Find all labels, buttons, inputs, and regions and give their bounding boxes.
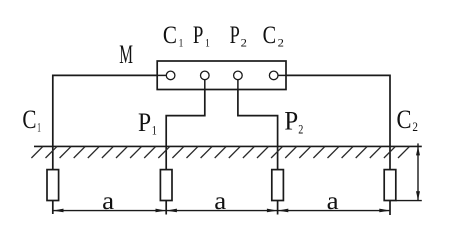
dimension arrows at electrode 1 (53, 209, 64, 213)
terminal C1 (166, 71, 175, 80)
depth dimension arrow down (416, 191, 420, 200)
wire C1: box left terminal to left electrode (53, 75, 171, 170)
electrode 3 stub below (277, 170, 279, 215)
svg-text:P: P (138, 107, 151, 137)
ground surface line (34, 145, 422, 147)
label C2 (top) (263, 22, 284, 50)
svg-text:1: 1 (37, 121, 41, 135)
label P2 (top) (230, 22, 247, 50)
label P2 (ground) (284, 106, 303, 137)
svg-text:P: P (230, 22, 240, 49)
wire stubs inside box to terminals (157, 75, 286, 89)
terminal C2 (269, 71, 278, 80)
electrode 2 (160, 170, 172, 201)
label P1 (top) (193, 22, 210, 50)
svg-text:a: a (102, 188, 114, 215)
electrode 2 stub below (165, 170, 167, 215)
svg-text:2: 2 (278, 35, 284, 49)
label C1 (ground) (22, 104, 40, 134)
label C2 (ground) (397, 104, 419, 134)
svg-text:C: C (263, 22, 277, 49)
svg-text:P: P (193, 22, 204, 49)
label P1 (ground) (138, 107, 157, 137)
electrode 1 (47, 170, 59, 201)
svg-text:C: C (163, 22, 177, 49)
svg-text:a: a (214, 188, 226, 215)
svg-text:C: C (22, 104, 36, 134)
dimension arrows at electrode 4 (379, 209, 390, 213)
wire P2: terminal P2 down and jog right to electrode 3 (238, 75, 278, 170)
dimension arrows at electrode 2 (156, 209, 167, 213)
svg-text:1: 1 (205, 35, 210, 49)
ground hatching (31, 147, 409, 158)
svg-text:a: a (327, 188, 339, 215)
dimension line a (1-2) (53, 210, 166, 212)
dimension arrows at electrode 3 (267, 209, 278, 213)
wire C2: box right terminal to right electrode (274, 75, 390, 170)
depth dimension line (417, 143, 419, 200)
svg-text:2: 2 (241, 35, 247, 49)
depth dimension arrow up (416, 146, 420, 155)
svg-text:M: M (119, 39, 133, 69)
svg-text:2: 2 (412, 120, 418, 134)
label C1 (top) (163, 22, 183, 50)
svg-text:P: P (284, 106, 298, 136)
electrode 4 (384, 170, 396, 201)
electrode 1 stub below (52, 170, 54, 214)
dimension line a (3-4) (278, 210, 390, 212)
svg-text:1: 1 (179, 35, 184, 49)
wire P1: terminal P1 down and jog left to electrode 2 (166, 75, 205, 170)
dimension line a (2-3) (166, 210, 277, 212)
terminal P2 (234, 71, 243, 80)
depth dimension extension line (bottom) (396, 200, 422, 202)
electrode 3 (272, 170, 284, 201)
svg-text:C: C (397, 104, 412, 134)
svg-text:1: 1 (152, 123, 157, 137)
electrode 4 stub below (389, 170, 391, 215)
instrument box M (157, 61, 286, 90)
svg-text:2: 2 (298, 122, 303, 136)
terminal P1 (201, 71, 210, 80)
